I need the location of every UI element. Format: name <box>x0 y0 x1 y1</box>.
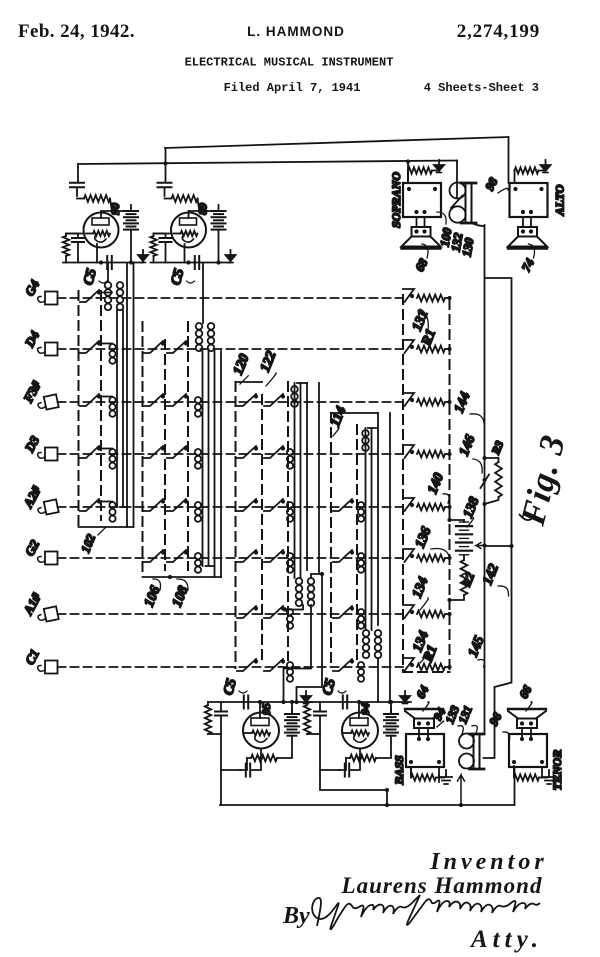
coil tap box114 row 8 <box>358 662 364 668</box>
row net G2 (dashed) <box>58 557 404 559</box>
coil tap box102 row 2 <box>109 344 115 350</box>
capacitor C5 (tube 95) <box>244 696 248 709</box>
triode 94 <box>342 713 378 749</box>
switch ladder row 1 <box>403 289 414 302</box>
ground (tube 90) <box>142 255 144 263</box>
svg-text:136: 136 <box>413 525 435 550</box>
svg-text:Inventor: Inventor <box>429 849 547 875</box>
wire tenor box to rail <box>513 766 516 805</box>
svg-text:96: 96 <box>486 710 505 728</box>
switch contact 120 row 3 <box>237 394 256 406</box>
resistor ladder row 6 <box>417 555 445 562</box>
switch ladder row 8 <box>403 658 414 671</box>
key A2# <box>37 499 59 516</box>
svg-text:131: 131 <box>455 704 475 726</box>
triode 89 <box>171 213 206 248</box>
svg-text:130: 130 <box>460 236 477 258</box>
svg-text:C5: C5 <box>169 267 188 287</box>
jack 133 (bass-tenor switch) <box>459 734 474 749</box>
switch box 106-108 (dashed) <box>142 322 144 577</box>
capacitor output (tube 94) <box>339 758 346 770</box>
svg-text:138: 138 <box>461 495 483 520</box>
battery 138 <box>463 520 465 522</box>
coil tap box102 row 4 <box>109 449 115 455</box>
coil column box114 <box>366 428 372 630</box>
svg-text:Filed April 7, 1941: Filed April 7, 1941 <box>224 81 361 95</box>
svg-text:102: 102 <box>78 532 98 555</box>
transformer (bass) <box>406 734 444 767</box>
coil column box120 <box>295 383 301 578</box>
wire plate rail (tube 95) <box>208 701 312 703</box>
coil column box106 <box>203 351 209 566</box>
switch key contact box102 row 2 <box>80 341 99 353</box>
resistor cathode (tube 95) <box>247 749 261 759</box>
wire drop to soprano transformer <box>407 162 409 184</box>
capacitor coupling (tube 89) <box>158 183 172 187</box>
switch contact 122 row 4 <box>264 446 283 458</box>
transformer (tenor) <box>509 734 547 767</box>
wire 120-bus down to rail <box>297 574 323 702</box>
resistor ladder row 7 <box>417 611 445 618</box>
switch contact 108 row 3 <box>167 394 186 406</box>
coil tap box120 row 4 <box>287 449 293 455</box>
svg-text:2,274,199: 2,274,199 <box>457 21 540 42</box>
ground soprano <box>438 160 440 166</box>
switch key contact box102 row 1 <box>80 290 99 302</box>
wire box 120 top <box>236 381 263 383</box>
capacitor C5 (tube 89) <box>195 256 199 269</box>
wire drop to jack 132 <box>456 161 458 199</box>
choke plate load (tube 94) <box>390 702 392 714</box>
svg-text:A1#: A1# <box>20 590 44 618</box>
wire cathode rail (tube 89) <box>151 262 231 264</box>
svg-text:ELECTRICAL MUSICAL INSTRUMENT: ELECTRICAL MUSICAL INSTRUMENT <box>185 56 394 70</box>
key D4 <box>38 343 58 356</box>
wire box 102 bottom <box>79 526 134 528</box>
ground tenor <box>542 777 547 779</box>
key A1# <box>37 606 59 623</box>
jack 130 (soprano-alto switch) <box>451 196 463 209</box>
row net G4 (dashed) <box>58 297 404 299</box>
switch contact 106 row 4 <box>144 446 163 458</box>
switch contact 108 row 5 <box>167 499 186 511</box>
switch ladder row 6 <box>403 549 414 562</box>
resistor ladder row 2 <box>417 346 445 353</box>
resistor grid (tube 90) <box>77 198 84 200</box>
contact 146 on bus 144 <box>481 475 490 489</box>
resistor cathode bias (tube 89) <box>154 234 172 237</box>
wire soprano voice leads <box>417 217 425 227</box>
wire bus144 to bus142 link <box>485 545 512 547</box>
ground (tube 94) <box>404 696 406 702</box>
triode 95 <box>243 713 279 749</box>
coil tap box106 row 3 <box>195 397 201 403</box>
capacitor bypass (tube 94) <box>319 702 321 711</box>
svg-text:C5: C5 <box>81 267 100 287</box>
wire 114-bus down to tube94 <box>377 658 379 702</box>
coil tap box106 row 6 <box>195 553 201 559</box>
svg-text:C1: C1 <box>22 647 42 667</box>
coil tap box102 row 5 <box>109 502 115 508</box>
svg-text:146: 146 <box>457 433 479 458</box>
wire top bus upper <box>165 137 509 148</box>
wire 120 transformer to tube95 rail <box>284 605 312 702</box>
wire top bus lower <box>78 161 457 165</box>
wire battery top <box>450 519 465 521</box>
svg-text:66: 66 <box>516 683 535 701</box>
row net C1 (dashed) <box>58 666 404 668</box>
capacitor bypass (tube 95) <box>220 702 222 711</box>
switch ladder row 3 <box>403 393 414 406</box>
bus box114 right pair <box>378 413 390 702</box>
loudspeaker 64 (bass) <box>405 708 443 710</box>
svg-text:134: 134 <box>410 575 432 600</box>
wire cathode rail (tube 90) <box>63 262 143 264</box>
row net A2# (dashed) <box>58 506 404 508</box>
wire bass feed <box>386 790 388 805</box>
coil tap box120 row 5 <box>287 502 293 508</box>
coil tap box114 row 7 <box>358 609 364 615</box>
wire tube95 output down <box>220 770 222 805</box>
switch ladder row 4 <box>403 445 414 458</box>
switch ladder row 2 <box>403 340 414 353</box>
wire jack left lead with arrow <box>458 775 465 805</box>
transformer 106 secondary <box>208 323 215 330</box>
capacitor C5 (tube 90) <box>107 256 112 269</box>
resistor bass secondary <box>410 767 412 778</box>
svg-text:98: 98 <box>482 175 501 193</box>
coil tap box120 row 6 <box>287 553 293 559</box>
wire drop to tube 90 coupling cap <box>77 164 79 182</box>
svg-text:Atty.: Atty. <box>469 926 543 953</box>
wire tenor voice leads <box>522 728 531 739</box>
resistor ladder row 4 <box>417 451 445 458</box>
wire bass transformer to rail <box>411 767 439 782</box>
resistor output soprano <box>407 171 409 184</box>
switch ladder row 7 <box>403 605 414 618</box>
capacitor cathode bypass (tube 90) <box>66 234 78 238</box>
switch contact 114 row 5 <box>333 499 352 511</box>
bus 144 (vertical) <box>484 225 486 734</box>
transformer 102 secondary top <box>117 282 124 289</box>
wire choke 89 to rail <box>218 237 220 263</box>
ground (tube 95) <box>305 696 307 702</box>
ground bass <box>439 777 444 779</box>
coil tap box106 row 5 <box>195 502 201 508</box>
switch contact 108 row 6 <box>167 550 186 562</box>
switch key contact box102 row 3 <box>80 394 99 406</box>
switch box 120-122 (dashed) <box>236 382 289 668</box>
row net D4 (dashed) <box>58 348 404 350</box>
svg-text:74: 74 <box>519 256 537 274</box>
coil tap box120 row 7 <box>287 609 293 615</box>
bus box106 right pair <box>215 351 222 577</box>
loudspeaker 68 (soprano) <box>412 227 431 237</box>
switch contact 106 row 2 <box>144 341 163 353</box>
svg-text:114: 114 <box>328 404 349 428</box>
svg-text:144: 144 <box>452 390 474 415</box>
bus box120 right pair <box>307 383 319 574</box>
switch contact 108 row 2 <box>167 341 186 353</box>
resistor grid (tube 94) <box>306 702 308 705</box>
capacitor output (tube 95) <box>240 758 247 770</box>
svg-text:G2: G2 <box>22 537 43 559</box>
svg-text:89: 89 <box>196 203 210 215</box>
svg-text:120: 120 <box>231 352 253 377</box>
attorney signature <box>312 895 540 929</box>
key G2 <box>38 552 58 565</box>
transformer box114 bottom <box>363 630 370 637</box>
choke plate load (tube 95) <box>291 702 293 714</box>
coil tap box120 row 8 <box>287 662 293 668</box>
coil tap box106 row 4 <box>195 449 201 455</box>
wire choke 90 to rail <box>130 237 132 263</box>
loudspeaker 66 (tenor) <box>508 708 546 710</box>
svg-text:94: 94 <box>358 703 372 715</box>
resistor ladder row 3 <box>417 399 445 406</box>
switch key contact box102 row 4 <box>80 446 99 458</box>
switch contact 120 row 7 <box>237 606 256 618</box>
coil column box102 <box>117 310 123 507</box>
svg-text:BASS: BASS <box>392 755 406 786</box>
transformer 102 primary <box>107 263 109 283</box>
svg-text:Fig. 3: Fig. 3 <box>513 431 573 530</box>
switch contact 120 row 6 <box>237 550 256 562</box>
switch contact 108 row 4 <box>167 446 186 458</box>
switch contact 122 row 5 <box>264 499 283 511</box>
triode 90 <box>84 213 119 248</box>
choke plate load (tube 89) <box>189 211 219 218</box>
resistor R3 <box>485 458 499 462</box>
wire bottom rail <box>220 804 515 806</box>
switch key contact box102 row 5 <box>80 499 99 511</box>
svg-text:C5: C5 <box>320 677 339 697</box>
resistor cathode bias (tube 90) <box>66 234 84 237</box>
wire box 106 bottom <box>143 576 222 578</box>
switch contact 106 row 6 <box>144 550 163 562</box>
ground (tube 89) <box>230 255 232 263</box>
key F3# <box>37 394 59 411</box>
svg-text:L. HAMMOND: L. HAMMOND <box>247 24 345 39</box>
wire tube94 output down <box>320 770 387 790</box>
svg-text:G4: G4 <box>22 277 43 299</box>
switch contact 122 row 7 <box>264 606 283 618</box>
svg-text:C5: C5 <box>221 677 240 697</box>
svg-text:64: 64 <box>413 683 431 701</box>
transformer 100 (soprano) <box>403 183 441 217</box>
svg-text:TENOR: TENOR <box>550 750 564 791</box>
wire alto voice leads <box>523 217 531 227</box>
resistor ladder row 5 <box>417 504 445 511</box>
resistor tenor secondary <box>513 767 515 778</box>
svg-text:68: 68 <box>412 256 431 274</box>
wire bass voice leads <box>419 728 428 739</box>
switch contact 120 row 8 <box>237 659 256 671</box>
resistor ladder row 1 <box>417 295 445 302</box>
key G4 <box>38 292 58 305</box>
switch contact 114 row 7 <box>333 606 352 618</box>
switch contact 122 row 8 <box>264 659 283 671</box>
switch contact 122 row 3 <box>264 394 283 406</box>
key D3 <box>38 448 58 461</box>
switch contact 122 row 6 <box>264 550 283 562</box>
switch box 102 (dashed) <box>78 291 80 527</box>
svg-text:4 Sheets-Sheet 3: 4 Sheets-Sheet 3 <box>424 81 539 95</box>
switch contact 120 row 5 <box>237 499 256 511</box>
svg-text:140: 140 <box>425 471 447 496</box>
svg-text:95: 95 <box>259 703 273 715</box>
wire drop to alto transformer <box>508 137 510 183</box>
resistor ladder row 8 <box>417 664 445 671</box>
capacitor C5 (tube 94) <box>343 696 347 709</box>
resistor output alto <box>514 171 516 184</box>
bus 142 (vertical) <box>484 278 512 758</box>
row net D3 (dashed) <box>58 453 404 455</box>
coil tap box114 row 5 <box>358 502 364 508</box>
switch contact 114 row 8 <box>333 659 352 671</box>
ladder box (dashed) <box>403 295 450 672</box>
svg-text:ALTO: ALTO <box>553 184 567 216</box>
wire plate rail (tube 94) <box>307 701 411 703</box>
svg-text:SOPRANO: SOPRANO <box>389 172 403 228</box>
loudspeaker 74 (alto) <box>518 227 537 237</box>
key C1 <box>38 661 58 674</box>
svg-text:Feb. 24, 1942.: Feb. 24, 1942. <box>18 21 135 42</box>
choke plate load (tube 90) <box>101 211 131 218</box>
capacitor cathode bypass (tube 89) <box>154 234 166 238</box>
svg-text:90: 90 <box>108 203 122 215</box>
coil tap box114 row 6 <box>358 553 364 559</box>
switch box 114 (dashed) <box>331 413 357 668</box>
capacitor coupling (tube 90) <box>70 183 84 187</box>
wire drop to tube 89 coupling cap <box>165 148 167 182</box>
row net F3# (dashed) <box>58 401 404 403</box>
bus box102 right pair <box>127 263 134 527</box>
resistor R2 <box>463 555 465 560</box>
transformer box120 bottom <box>296 578 303 585</box>
row net A1# (dashed) <box>58 613 404 615</box>
switch contact 106 row 3 <box>144 394 163 406</box>
resistor grid (tube 89) <box>165 198 172 200</box>
wiper arrow to battery <box>476 543 485 549</box>
switch contact 106 row 5 <box>144 499 163 511</box>
svg-text:R3: R3 <box>490 439 507 457</box>
switch ladder row 5 <box>403 498 414 511</box>
svg-text:Laurens Hammond: Laurens Hammond <box>341 873 543 898</box>
svg-text:F3#: F3# <box>20 378 44 406</box>
svg-text:122: 122 <box>258 349 280 374</box>
ground alto <box>545 160 547 166</box>
transformer 106 primary <box>202 263 204 323</box>
coil tap box102 row 3 <box>109 397 115 403</box>
resistor grid (tube 95) <box>207 702 209 705</box>
switch contact 114 row 6 <box>333 550 352 562</box>
transformer 98 (alto) <box>510 183 548 217</box>
svg-text:A2#: A2# <box>20 483 44 511</box>
svg-text:By: By <box>282 903 310 929</box>
resistor cathode (tube 94) <box>346 749 360 759</box>
switch contact 120 row 4 <box>237 446 256 458</box>
